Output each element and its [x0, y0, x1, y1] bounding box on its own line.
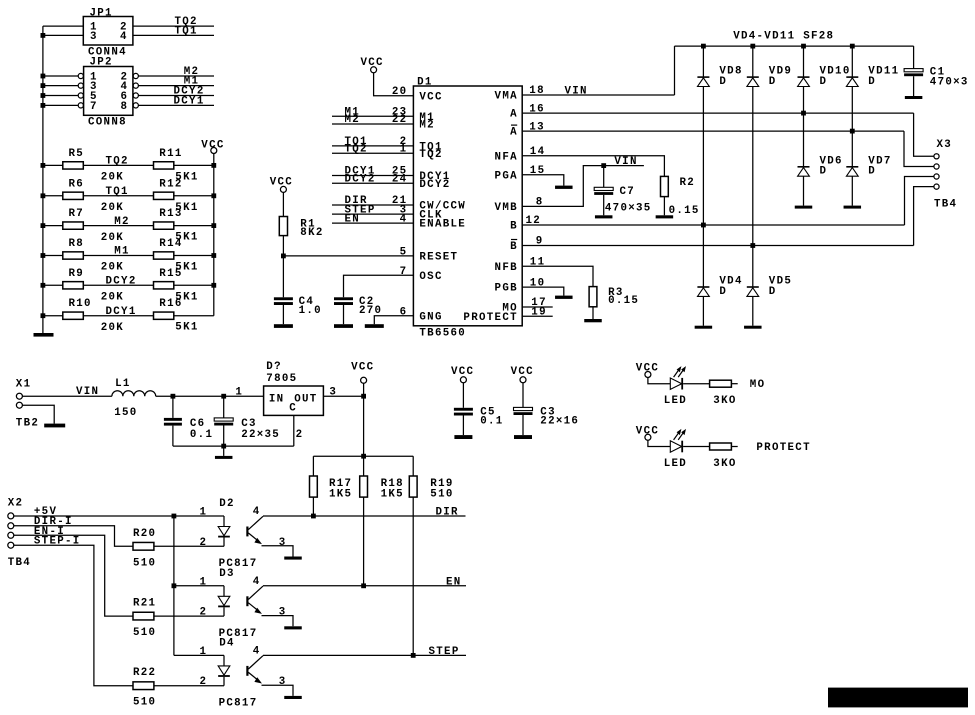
- svg-text:TB6560: TB6560: [419, 328, 466, 340]
- resistor R3 0.15: [589, 287, 597, 307]
- wire C5 to ground: [462, 416, 464, 436]
- svg-text:470×3: 470×3: [930, 77, 969, 89]
- svg-text:VCC: VCC: [451, 366, 474, 378]
- svg-text:PC817: PC817: [219, 697, 258, 709]
- svg-text:20K: 20K: [101, 202, 124, 214]
- wire R1 to RESET node: [282, 236, 284, 298]
- svg-text:GNG: GNG: [419, 311, 442, 323]
- wire VCC to LED PROTECT: [648, 440, 670, 446]
- power VCC R1: [280, 186, 286, 192]
- wire JP1 pin1 to bus: [43, 25, 83, 27]
- svg-text:CONN8: CONN8: [88, 116, 127, 128]
- wire R15 to VCC bus: [174, 284, 214, 286]
- wire LED to resistor MO: [683, 383, 710, 385]
- svg-text:D?: D?: [266, 361, 282, 373]
- power VCC ladder: [211, 148, 217, 154]
- connector JP2 left pin circle 7: [78, 103, 83, 108]
- svg-text:ENABLE: ENABLE: [419, 219, 466, 231]
- wire C6 to bottom rail: [172, 426, 174, 447]
- svg-text:TQ2: TQ2: [419, 149, 442, 161]
- svg-text:C7: C7: [620, 186, 636, 198]
- ground IC pin 10: [555, 296, 573, 299]
- junction bus JP2 row 3: [41, 93, 46, 98]
- wire R22 to D4 pin 2: [154, 685, 224, 687]
- svg-text:0.15: 0.15: [669, 205, 700, 217]
- resistor R14 5K1: [154, 252, 174, 259]
- svg-text:DCY1: DCY1: [106, 306, 137, 318]
- svg-text:RESET: RESET: [419, 252, 458, 264]
- wire JP1 pin3 to bus: [43, 34, 83, 36]
- wire R20 to D2 pin 2: [154, 545, 224, 547]
- svg-text:D: D: [820, 76, 828, 88]
- junction bus JP2 row 1: [41, 74, 46, 79]
- wire VCC bus vertical: [213, 154, 215, 316]
- connector JP2 left pin circle 3: [78, 83, 83, 88]
- wire R18 to EN: [363, 497, 365, 586]
- ground emitter D2: [284, 557, 302, 560]
- junction VCC bus row 1: [211, 163, 216, 168]
- ground left bus: [34, 333, 54, 337]
- wire feed to D4 pin1: [174, 654, 224, 656]
- ground C2: [334, 324, 353, 328]
- wire bus to JP2 pin 3: [43, 85, 78, 87]
- phototransistor inside D3: [246, 596, 248, 606]
- phototransistor inside D2: [246, 527, 248, 537]
- svg-text:R14: R14: [159, 238, 182, 250]
- connector JP2 left pin circle 5: [78, 93, 83, 98]
- svg-text:R12: R12: [159, 178, 182, 190]
- wire JP1 pin4 net TQ1: [133, 34, 214, 36]
- wire bus to R5: [43, 164, 63, 166]
- junction top bus VD9: [750, 44, 755, 49]
- wire L1 to 7805 pin 1: [156, 395, 264, 397]
- svg-text:1.0: 1.0: [299, 305, 322, 317]
- wire bus to R9: [43, 284, 63, 286]
- wire IC D1 pin 2 input TQ1: [332, 145, 413, 147]
- svg-text:2: 2: [200, 676, 208, 688]
- wire R11 to VCC bus: [174, 164, 214, 166]
- svg-text:NFA: NFA: [495, 151, 518, 163]
- wire bus to JP2 pin 7: [43, 104, 78, 106]
- junction bus ladder row 3: [41, 223, 46, 228]
- wire VD8 column: [702, 46, 704, 326]
- wire R13 to VCC bus: [174, 225, 214, 227]
- diode VD5: [747, 286, 759, 288]
- junction net A-bar VD7: [850, 129, 855, 134]
- wire JP2 pin 6 net DCY2: [139, 95, 215, 97]
- svg-text:4: 4: [253, 646, 261, 658]
- connector JP2 box: [84, 67, 133, 116]
- svg-text:TQ1: TQ1: [106, 186, 129, 198]
- svg-text:510: 510: [430, 488, 453, 500]
- resistor R12 5K1: [154, 192, 174, 199]
- power VCC C3: [520, 377, 526, 383]
- svg-text:DCY1: DCY1: [174, 95, 205, 107]
- svg-text:R16: R16: [159, 298, 182, 310]
- svg-text:20K: 20K: [101, 292, 124, 304]
- wire C7 to ground: [603, 195, 605, 215]
- svg-text:TB2: TB2: [16, 417, 39, 429]
- svg-text:D1: D1: [417, 77, 433, 89]
- svg-text:1: 1: [400, 144, 408, 156]
- wire IC pin 14 NFA to R2: [522, 156, 664, 177]
- wire C2 to ground: [343, 305, 345, 324]
- svg-text:X1: X1: [16, 379, 32, 391]
- svg-text:4: 4: [120, 31, 128, 43]
- wire R19 to STEP: [412, 497, 414, 655]
- ground regulator rail: [215, 456, 233, 459]
- svg-text:4: 4: [253, 576, 261, 588]
- svg-text:PROTECT: PROTECT: [463, 312, 517, 324]
- wire RESET to IC pin 5: [283, 255, 413, 257]
- wire net B to X3 pin 3: [905, 177, 934, 226]
- svg-text:LED: LED: [664, 395, 687, 407]
- svg-text:22: 22: [392, 114, 408, 126]
- wire rail to R17: [312, 456, 314, 476]
- connector X1 pin circle 2: [16, 402, 22, 408]
- wire VD10 column: [803, 46, 805, 206]
- wire left vertical bus: [42, 26, 44, 333]
- svg-text:R22: R22: [133, 667, 156, 679]
- connector JP1 box: [83, 17, 133, 46]
- junction C6: [171, 394, 176, 399]
- wire STEP-I to R22: [14, 545, 133, 686]
- resistor R21 510: [133, 612, 154, 620]
- wire net B-bar pin 9: [522, 245, 913, 247]
- connector X2 pin circle 3: [8, 532, 14, 538]
- svg-text:1: 1: [235, 386, 243, 398]
- ground emitter D4: [284, 696, 302, 699]
- svg-text:3KO: 3KO: [713, 458, 736, 470]
- svg-text:PGB: PGB: [495, 283, 518, 295]
- ground C5: [454, 435, 472, 439]
- wire JP2 pin 4 net M1: [139, 85, 215, 87]
- ground emitter D3: [284, 626, 302, 629]
- svg-text:M1: M1: [114, 246, 130, 258]
- resistor R22 510: [133, 682, 154, 690]
- svg-text:VMA: VMA: [495, 91, 518, 103]
- svg-text:3: 3: [90, 31, 98, 43]
- diode VD7: [846, 166, 858, 168]
- wire bus to R8: [43, 255, 63, 257]
- svg-text:EN: EN: [345, 213, 361, 225]
- wire rail to R18: [363, 456, 365, 476]
- wire IC pin 15 PGA to ground: [522, 175, 564, 186]
- connector X2 pin circle 2: [8, 523, 14, 529]
- svg-text:3KO: 3KO: [713, 395, 736, 407]
- wire resistor PROTECT stub: [731, 446, 737, 448]
- resistor R18 1K5: [360, 476, 368, 497]
- ground R2: [656, 215, 674, 218]
- wire C3 to ground: [522, 415, 524, 435]
- resistor R6 20K: [63, 192, 84, 199]
- svg-text:R10: R10: [69, 298, 92, 310]
- junction VCC bus row 3: [211, 223, 216, 228]
- svg-text:VCC: VCC: [419, 91, 442, 103]
- wire pullup rail: [313, 455, 413, 457]
- wire JP2 pin 2 net M2: [139, 75, 215, 77]
- LED diode PROTECT: [670, 441, 681, 452]
- svg-text:B: B: [510, 221, 518, 233]
- connector X1 pin circle 1: [16, 393, 22, 399]
- wire VIN top bus: [675, 45, 914, 47]
- svg-text:OUT: OUT: [294, 394, 317, 406]
- svg-text:20K: 20K: [101, 172, 124, 184]
- ground C3: [514, 435, 532, 439]
- wire net A to X3 pin 1: [914, 113, 934, 156]
- diode VD11: [846, 76, 858, 78]
- wire R14 to VCC bus: [174, 255, 214, 257]
- LED diode MO: [670, 378, 681, 389]
- wire IC pin 19 PROTECT stub: [522, 315, 553, 317]
- junction DIR R17: [311, 514, 316, 519]
- junction bus ladder row 2: [41, 193, 46, 198]
- connector X2 pin circle 4: [8, 542, 14, 548]
- wire IC pin 17 MO stub: [522, 306, 553, 308]
- svg-text:D: D: [820, 166, 828, 178]
- wire C3 to bottom rail: [223, 426, 225, 447]
- regulator 7805 box: [264, 386, 324, 415]
- wire R3 to ground: [592, 307, 594, 319]
- resistor R9 20K: [63, 282, 84, 289]
- wire LED to resistor PROTECT: [683, 446, 710, 448]
- power VCC LED PROTECT: [645, 434, 651, 440]
- junction VCC bus row 2: [211, 193, 216, 198]
- wire R9 to R15 net DCY2: [83, 284, 153, 286]
- svg-text:VCC: VCC: [636, 425, 659, 437]
- svg-text:R11: R11: [159, 148, 182, 160]
- wire IC D1 pin 23 input M1: [332, 115, 413, 117]
- svg-text:7: 7: [400, 266, 408, 278]
- svg-text:2: 2: [296, 429, 304, 441]
- junction bus ladder row 4: [41, 253, 46, 258]
- svg-text:D2: D2: [219, 498, 235, 510]
- resistor R1 8K2: [279, 217, 287, 236]
- svg-text:510: 510: [133, 627, 156, 639]
- svg-text:X2: X2: [8, 498, 24, 510]
- junction net B-bar VD5: [750, 243, 755, 248]
- wire resistor MO stub: [731, 383, 737, 385]
- svg-text:L1: L1: [115, 378, 131, 390]
- inductor L1 150: [112, 391, 156, 396]
- wire C4 to ground: [282, 305, 284, 324]
- svg-text:D: D: [769, 286, 777, 298]
- resistor R16 5K1: [154, 312, 174, 319]
- junction +5V feed: [172, 514, 177, 519]
- junction pullup rail: [361, 454, 366, 459]
- wire 7805 pin 3 to VCC: [323, 395, 363, 397]
- svg-text:2: 2: [200, 537, 208, 549]
- svg-text:C: C: [289, 403, 297, 415]
- svg-text:0.15: 0.15: [608, 295, 639, 307]
- resistor R15 5K1: [154, 282, 174, 289]
- resistor R13 5K1: [154, 222, 174, 229]
- wire VCC to C5: [462, 383, 464, 408]
- connector JP2 right pin circle 2: [133, 73, 138, 78]
- junction bus ladder row 6: [41, 313, 46, 318]
- capacitor C3 22x16: [514, 407, 533, 410]
- wire +5V feed vertical: [173, 516, 175, 655]
- ground VD7 column: [844, 206, 862, 209]
- svg-text:PGA: PGA: [495, 170, 518, 182]
- connector JP2 right pin circle 4: [133, 83, 138, 88]
- svg-text:0.1: 0.1: [480, 416, 503, 428]
- capacitor C7 470x35: [603, 166, 605, 188]
- svg-text:1: 1: [200, 646, 208, 658]
- svg-text:5K1: 5K1: [175, 322, 198, 334]
- wire IC D1 pin 3 input STEP: [332, 213, 413, 215]
- wire R5 to R11 net TQ2: [83, 164, 153, 166]
- wire bus to R7: [43, 225, 63, 227]
- ground X1: [44, 424, 65, 428]
- capacitor C6 0.1: [172, 396, 174, 418]
- junction bus ladder row 1: [41, 163, 46, 168]
- svg-text:D: D: [868, 166, 876, 178]
- svg-text:1K5: 1K5: [329, 488, 352, 500]
- wire bus to R10: [43, 315, 63, 317]
- svg-text:M2: M2: [419, 120, 435, 132]
- junction STEP R19: [411, 653, 416, 658]
- svg-text:TB4: TB4: [934, 198, 957, 210]
- wire bus to R6: [43, 195, 63, 197]
- wire IC pin 18 VMA to top bus: [522, 94, 674, 96]
- connector JP2 left pin circle 1: [78, 73, 83, 78]
- svg-text:VMB: VMB: [495, 202, 518, 214]
- wire 7805 pin 2 to rail: [293, 415, 295, 446]
- wire net B pin 12: [522, 224, 904, 226]
- svg-text:1: 1: [200, 507, 208, 519]
- svg-text:VCC: VCC: [636, 363, 659, 375]
- wire VD11 column: [851, 46, 853, 206]
- wire R2 to ground: [663, 197, 665, 216]
- svg-text:C6: C6: [190, 418, 206, 430]
- wire VCC down to pullup rail: [363, 383, 365, 456]
- diode VD4: [697, 286, 709, 288]
- LED inside D4: [223, 655, 225, 666]
- wire JP1 pin2 net TQ2: [133, 25, 214, 27]
- connector X3 pin circle 2: [934, 164, 939, 169]
- LED inside D2: [223, 516, 225, 527]
- svg-text:JP1: JP1: [90, 7, 113, 19]
- connector X3 pin circle 1: [934, 154, 939, 159]
- black censor rectangle bottom right: [828, 688, 968, 708]
- junction top bus VD10: [801, 44, 806, 49]
- resistor R7 20K: [63, 222, 84, 229]
- wire bus to JP2 pin 5: [43, 95, 78, 97]
- svg-text:3: 3: [329, 386, 337, 398]
- junction bus JP2 row 2: [41, 83, 46, 88]
- svg-text:24: 24: [392, 173, 408, 185]
- ground IC pin 6: [365, 324, 384, 328]
- wire IC D1 pin 24 input DCY2: [332, 182, 413, 184]
- wire IC pin 11 NFB to R3: [522, 266, 593, 286]
- wire emitter D2 to ground: [262, 546, 294, 557]
- wire R17 to DIR: [312, 497, 314, 516]
- ground R3: [584, 319, 602, 322]
- wire R21 to D3 pin 2: [154, 615, 224, 617]
- svg-text:22×35: 22×35: [241, 429, 280, 441]
- diode VD6: [798, 166, 810, 168]
- diode VD9: [747, 76, 759, 78]
- wire R16 to VCC bus: [174, 315, 214, 317]
- phototransistor inside D4: [246, 666, 248, 676]
- svg-text:VIN: VIN: [565, 86, 588, 98]
- svg-text:LED: LED: [664, 458, 687, 470]
- ground VD6 column: [795, 206, 813, 209]
- svg-text:D3: D3: [219, 568, 235, 580]
- svg-text:TQ2: TQ2: [345, 144, 368, 156]
- svg-text:R21: R21: [133, 598, 156, 610]
- svg-text:510: 510: [133, 557, 156, 569]
- junction VCC bus row 5: [211, 283, 216, 288]
- svg-text:R9: R9: [69, 268, 85, 280]
- wire IC D1 pin 1 input TQ2: [332, 152, 413, 154]
- svg-text:20K: 20K: [101, 262, 124, 274]
- wire VCC to C3: [522, 383, 524, 408]
- svg-text:6: 6: [400, 306, 408, 318]
- svg-text:PROTECT: PROTECT: [756, 442, 810, 454]
- svg-text:1: 1: [200, 576, 208, 588]
- wire IC pin 8 VMB to VIN stub: [522, 166, 644, 207]
- diode VD10: [798, 76, 810, 78]
- svg-text:VCC: VCC: [361, 57, 384, 69]
- svg-text:TB4: TB4: [8, 557, 31, 569]
- wire +5V to opto pin1 feed: [14, 515, 224, 517]
- ground VD5 column: [744, 326, 762, 329]
- junction VCC output: [361, 394, 366, 399]
- junction net A VD6: [801, 111, 806, 116]
- svg-text:VCC: VCC: [351, 362, 374, 374]
- svg-text:7805: 7805: [266, 373, 297, 385]
- svg-text:DIR: DIR: [436, 507, 459, 519]
- resistor R2 0.15: [661, 176, 669, 196]
- svg-text:7: 7: [90, 101, 98, 113]
- svg-text:20K: 20K: [101, 232, 124, 244]
- svg-text:VCC: VCC: [270, 176, 293, 188]
- wire IC pin 7 OSC to C2: [344, 275, 414, 297]
- wire emitter D3 to ground: [262, 616, 294, 627]
- svg-text:TQ1: TQ1: [175, 26, 198, 38]
- svg-text:3: 3: [279, 676, 287, 688]
- wire net STEP: [263, 654, 466, 656]
- wire VCC to R1: [282, 192, 284, 216]
- connector X2 pin circle 1: [8, 513, 14, 519]
- junction bus JP1 pin3: [41, 33, 46, 38]
- ground VD4 column: [695, 326, 713, 329]
- wire bus to JP2 pin 1: [43, 75, 78, 77]
- resistor R8 20K: [63, 252, 84, 259]
- wire net A-bar to X3 pin 2: [904, 131, 934, 166]
- capacitor C4 1.0: [274, 297, 293, 300]
- svg-text:NFB: NFB: [495, 262, 518, 274]
- diode VD8: [697, 76, 709, 78]
- wire net EN: [263, 585, 466, 587]
- svg-text:R15: R15: [159, 268, 182, 280]
- wire DIR-I to R20: [14, 526, 133, 547]
- svg-text:R20: R20: [133, 528, 156, 540]
- svg-text:M2: M2: [345, 114, 361, 126]
- junction C7 on VIN stub: [601, 163, 606, 168]
- svg-text:D: D: [719, 76, 727, 88]
- IC D1 TB6560 box: [413, 86, 522, 326]
- svg-text:R13: R13: [159, 208, 182, 220]
- wire C1 to ground: [913, 76, 915, 96]
- connector JP2 right pin circle 6: [133, 93, 138, 98]
- svg-text:MO: MO: [750, 379, 766, 391]
- capacitor C5 0.1: [454, 408, 473, 411]
- connector X3 pin circle 4: [934, 184, 939, 189]
- svg-text:0.1: 0.1: [190, 429, 213, 441]
